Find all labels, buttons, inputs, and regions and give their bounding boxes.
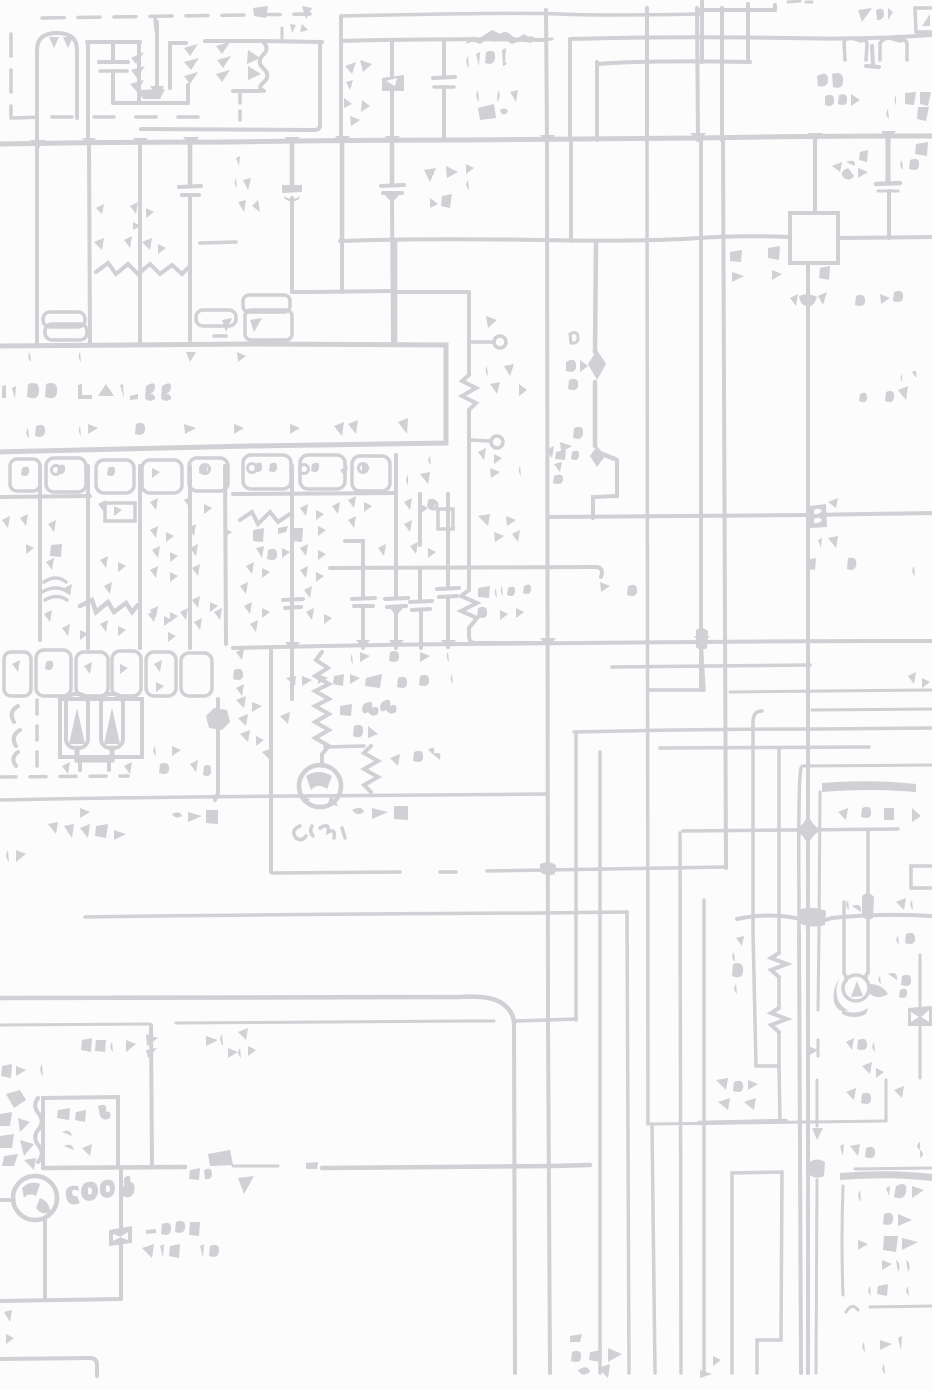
transformer T2 core triangle 2: [104, 708, 120, 744]
text garble near trimmer: [406, 472, 435, 508]
wire vertical x886: [885, 1080, 888, 1121]
inductor stack left: [43, 312, 87, 340]
wire vertical x753 lower: [753, 932, 756, 1066]
Q2 funnel top: [844, 972, 868, 982]
resistor R3 zigzag: [315, 652, 329, 766]
text garble bottom left marks: [6, 850, 26, 862]
resistor R2 squiggle: [240, 512, 290, 524]
coil L1 marks: [130, 52, 145, 92]
wire bus H12: [233, 641, 932, 648]
wire array drop E: [225, 466, 226, 644]
text scatter dense D: [44, 556, 178, 636]
capacitor C12 plates on drop F: [283, 599, 303, 608]
wire dashed stub: [155, 17, 156, 30]
capacitor C10 stem: [419, 610, 423, 648]
wire stub below L3: [238, 93, 242, 120]
capacitor C9 plates: [385, 598, 408, 607]
wire grid vertical F: [720, 8, 724, 140]
text garble arrow marks B: [352, 806, 430, 820]
wire dashed mid line: [52, 115, 218, 119]
text scatter dense J: [348, 496, 430, 532]
text scatter dense F: [62, 582, 130, 640]
wire drop H2: [418, 568, 422, 600]
wire vertical x808 lower: [806, 932, 810, 1373]
capacitor C6 lower stem: [290, 198, 294, 292]
node H12 junctions: [285, 636, 710, 651]
text scatter mid column: [300, 502, 342, 560]
transformer T2 outer box: [60, 699, 142, 757]
node big cross junction: [794, 814, 822, 846]
capacitor C1 polarity marks: [49, 37, 73, 48]
wire vertical drop end: [701, 640, 704, 690]
text garble small right: [859, 371, 917, 403]
text garble DV1: [1, 1064, 54, 1078]
wire branch to box: [813, 140, 817, 213]
text garble box B1 row2: [62, 1128, 98, 1156]
text garble mid column: [486, 362, 527, 396]
component small box T2: [105, 503, 135, 521]
wire vertical link 342: [340, 241, 344, 292]
node circles row1: [52, 464, 368, 475]
wire under row1 mid: [233, 493, 395, 494]
transformer T2 bottom U: [77, 748, 112, 760]
capacitor C2 lower stem: [111, 71, 115, 103]
wire H16: [574, 728, 932, 732]
text garble box B1 row1: [57, 1105, 111, 1122]
wire vertical long A: [546, 10, 547, 140]
text label 201: [858, 8, 893, 22]
text U1 pin numbers row bottom: [26, 423, 244, 438]
coil L2 top wire: [205, 39, 262, 43]
wire vertical D: [697, 8, 698, 140]
text scatter tile7 bottom: [478, 446, 568, 464]
wire vertical x515: [514, 1022, 515, 1373]
wire box left edge: [269, 648, 273, 872]
text garble 22C cluster: [832, 150, 868, 180]
component filled square: [50, 544, 62, 557]
wire H30 rail: [650, 1121, 886, 1124]
capacitor C7 lower stem: [392, 199, 393, 345]
diode pair block above IC: [243, 295, 292, 340]
wire drop 3: [138, 143, 142, 344]
coil L3 zigzag right edge: [260, 42, 268, 91]
text garble D15D 70: [253, 526, 303, 560]
decorative blob cluster left: [0, 1090, 36, 1170]
text garble 101: [466, 48, 506, 68]
capacitor C8 stem: [361, 606, 365, 648]
transformer T2 stubs: [80, 762, 109, 770]
wire corner riser: [141, 42, 320, 130]
text garble k2 row2: [732, 266, 842, 282]
box lens2 top: [840, 1171, 932, 1181]
text garble row small: [48, 806, 126, 840]
text block row 5: [854, 1284, 909, 1296]
transistor Q1 circle: [299, 765, 341, 807]
arrow head: [150, 86, 164, 97]
wire vertical feeder: [339, 16, 343, 140]
text scatter dense C: [150, 544, 220, 582]
wire nut stem: [215, 699, 218, 800]
transformer T2 capsule 2: [101, 694, 123, 748]
text garble pc cluster: [566, 360, 590, 390]
fuse F2 body: [109, 1226, 132, 1246]
node terminal circle 1: [494, 336, 506, 348]
text garble left column rows: [233, 648, 260, 696]
text garble 1 blob cluster: [590, 582, 637, 596]
wire H30 thick part: [699, 1121, 786, 1123]
wire second bus: [340, 236, 790, 241]
wire box top H: [325, 746, 364, 747]
transistor Q2 circle: [843, 975, 869, 1001]
wire H14 stub: [648, 688, 704, 692]
triangle mark: [238, 1176, 254, 1194]
text garble near bracket: [750, 898, 913, 916]
text garble right small: [908, 566, 930, 688]
node bulges on drop: [146, 1034, 158, 1058]
wire Q3 left lead: [0, 1198, 14, 1202]
transistor Q1 inner marks: [306, 772, 332, 790]
wire H13: [612, 665, 810, 667]
node terminal circle 2: [491, 436, 503, 448]
text garble 10716: [152, 744, 211, 776]
capacitor C1 capsule body: [37, 33, 77, 143]
wire main lower rail: [0, 997, 514, 1024]
resistor array marks: [21, 463, 382, 478]
capacitor C5 plates: [179, 186, 201, 195]
text label C006: [66, 1186, 80, 1205]
text U1 part label: [2, 383, 57, 399]
wire Q3 emitter stem: [43, 1221, 47, 1298]
wire H22 segment: [487, 867, 726, 871]
text garble pins left: [478, 316, 512, 330]
capacitor C11 plates: [437, 588, 459, 597]
text garble bottom right: [862, 1336, 902, 1374]
capacitor C9 wedge: [390, 608, 403, 616]
trimmer box small: [438, 509, 453, 529]
node bus junction 2: [183, 136, 400, 146]
component box K2: [790, 213, 838, 263]
wire vertical x920: [919, 955, 922, 1078]
wire vertical with arrow: [155, 22, 159, 86]
wire vertical B lower: [569, 140, 573, 241]
transistor Q3 circle: [13, 1176, 57, 1220]
wire loop right vertical: [137, 42, 141, 103]
text garble small pair: [238, 1028, 256, 1058]
node small circle: [429, 501, 437, 509]
wire thin top right: [855, 1168, 932, 1169]
text garble hat dash: [538, 39, 552, 40]
text garble row B: [286, 674, 453, 688]
wire to terminal 2: [470, 440, 491, 441]
wire stub top: [281, 28, 284, 38]
wire corner drop: [151, 1025, 152, 1167]
wire hook end: [597, 567, 602, 577]
wire vertical mid drop: [574, 732, 578, 1020]
fuse F1 right cup: [880, 38, 907, 60]
small blob: [306, 1162, 318, 1169]
text garble arrow marks: [172, 810, 218, 824]
text garble S marks left: [466, 164, 474, 198]
capacitor C6 stem: [290, 143, 295, 184]
text scatter dense G: [148, 608, 222, 642]
wire to terminal 1: [470, 340, 494, 344]
wire horizontal H10: [548, 513, 932, 517]
wire H20 rail: [0, 794, 548, 800]
dash marks top edge: [788, 1, 812, 2]
resistor R4 zigzag: [364, 746, 378, 792]
box top lens thick: [822, 781, 916, 792]
node diamond junction: [595, 241, 615, 459]
component pancake arcs: [42, 578, 68, 600]
wire Q2 stem left: [842, 902, 846, 973]
text garble C151: [294, 826, 345, 840]
wire loop bottom: [113, 101, 188, 105]
wire mid horizontal: [330, 567, 597, 568]
connector J1 box: [915, 8, 932, 32]
transistor Q2 outer arcs: [834, 978, 848, 1011]
wire vertical tall drop: [598, 752, 602, 1373]
wire vertical C: [645, 8, 649, 140]
text garble 701 10 16: [798, 536, 856, 570]
wire array drop A: [38, 466, 42, 640]
arrow head on dashed edge: [812, 1128, 823, 1140]
node blob junction x701: [696, 628, 708, 650]
node blob: [862, 893, 874, 919]
text scatter right mid: [378, 542, 436, 558]
text garble A10 labels: [838, 807, 921, 822]
capacitor C4 lower stem: [887, 191, 891, 238]
resistor array row 1: [10, 455, 390, 493]
wire dashed vertical: [35, 700, 39, 772]
fuse F1 element: [866, 46, 879, 67]
wire long vertical main: [806, 263, 810, 932]
text garble rotated column: [553, 450, 572, 484]
capacitor C2 plates: [99, 60, 128, 64]
connector hex nut: [206, 708, 230, 730]
coil L2 marks: [216, 42, 231, 82]
wire elbow to left vertical: [395, 290, 469, 294]
wire vertical right drop: [680, 833, 681, 1373]
wire vertical x627: [627, 912, 629, 1373]
squiggle band atop drops: [96, 263, 190, 274]
wire vertical x655: [652, 1124, 655, 1373]
wire H27 elbow: [756, 1064, 779, 1068]
capacitor C5 stem: [188, 143, 193, 185]
wire box bottom rail: [43, 1167, 185, 1168]
wire second rail: [341, 39, 545, 41]
wire stub segment: [200, 242, 236, 243]
wire under row1 left: [0, 496, 90, 497]
wire array drop F long: [290, 466, 294, 699]
text garble right of node: [855, 291, 903, 306]
text garble left col tile11: [478, 466, 526, 542]
wire stub mid: [292, 291, 395, 292]
text garble right of Q2: [878, 932, 930, 998]
wire vertical B: [568, 40, 572, 140]
wire grid horizontal top: [699, 8, 775, 12]
text block row 2: [862, 1213, 912, 1226]
text garble cluster bottom mid: [570, 1334, 622, 1378]
wire array drop C: [138, 466, 142, 648]
text garble left col lower: [477, 585, 531, 620]
wire top bar node: [87, 40, 140, 44]
text garble row A: [322, 651, 449, 666]
text garble hat row: [466, 30, 534, 44]
transistor Q3 inner marks: [22, 1183, 50, 1214]
text block row 3: [858, 1236, 930, 1252]
text garble right edge: [886, 92, 931, 121]
text garble mid cluster: [344, 60, 374, 126]
wire left drop with resistor R1: [467, 292, 471, 448]
wire array drop B: [86, 466, 90, 648]
capacitor C11 stem: [446, 597, 450, 647]
wire dashed outline top-left: [11, 14, 310, 118]
wire vertical hook: [753, 711, 762, 932]
box left edge: [819, 792, 820, 932]
inductor stack right: [196, 310, 236, 326]
capacitor C4 plates: [876, 183, 900, 184]
wire right vertical drop 2: [723, 140, 726, 868]
wire dashed horizontal: [0, 776, 128, 777]
transformer T1 winding marks: [184, 44, 199, 84]
op-amp U1 IC box LA7266: [0, 344, 446, 452]
wire L2 bottom: [233, 89, 260, 93]
text scatter dense I: [300, 466, 366, 624]
filled bar under coil: [138, 89, 165, 99]
capacitor C4 stem: [886, 139, 891, 181]
wire vertical branch: [390, 40, 394, 140]
coil L2 right marks: [247, 50, 261, 80]
capacitor C5 lower stem: [188, 195, 192, 340]
text garble LTD S row: [840, 1142, 923, 1158]
text garble small row2: [262, 24, 308, 33]
text scatter dense E: [2, 514, 220, 630]
text garble parens dots: [476, 90, 520, 120]
wire lower rail thin: [0, 1021, 494, 1025]
wire text block left edge: [842, 1186, 843, 1295]
wire H24 rail: [85, 912, 627, 917]
capacitor C7 wedge: [385, 195, 399, 203]
capacitor C9 stem: [394, 612, 398, 648]
wire H21: [683, 829, 898, 831]
text garble right edge cluster: [900, 142, 932, 170]
wire top bar extension: [262, 41, 322, 42]
wire H17: [660, 747, 869, 748]
transformer T1 left winding frame: [170, 43, 186, 88]
transformer T1 right vertical: [186, 85, 190, 103]
wire vertical with resistors R5 R6: [777, 748, 781, 1068]
wire H14b: [730, 690, 932, 692]
component link box: [810, 504, 827, 528]
wire vertical taper: [799, 768, 801, 932]
text block row 4: [856, 1260, 910, 1272]
wire elbow riser: [393, 241, 398, 345]
wire H15: [812, 709, 932, 710]
capacitor C7 stem: [390, 143, 395, 184]
text garble below bus tiny: [95, 202, 172, 230]
wire grid stub 1: [746, 4, 750, 10]
wire fuse drop: [119, 1168, 123, 1298]
wire nested horizontal: [597, 61, 750, 64]
wire drop G: [394, 455, 398, 596]
text garble DO)A: [189, 1168, 236, 1180]
resistor array row 2: [4, 650, 212, 696]
wire box bottom dash: [440, 870, 456, 874]
wire array drop D: [188, 466, 192, 648]
text garble small o: [570, 333, 578, 343]
resistor R6 zigzag: [771, 1008, 787, 1032]
capacitor C7 plates: [381, 185, 404, 193]
text garble k2 row: [730, 246, 780, 262]
wire grid vertical G: [746, 8, 750, 62]
text scatter dense B: [46, 520, 232, 544]
text garble cluster right low: [808, 1038, 904, 1104]
text label -00D: [146, 1221, 200, 1236]
resistor row 2 marks: [12, 660, 164, 692]
wire rail thin segment: [233, 1165, 278, 1168]
wire vertical x779 tail: [779, 1066, 780, 1122]
arc mark: [846, 1306, 858, 1312]
wire drop 4: [340, 143, 345, 241]
wire nested corner: [595, 62, 599, 140]
text garble cluster left低: [716, 1078, 758, 1110]
text garble right of C3: [417, 166, 462, 208]
wire stub link: [548, 1019, 576, 1020]
resistor R7 zigzag left: [469, 448, 541, 643]
wire box bottom: [272, 872, 400, 873]
text garble messy top cluster: [236, 696, 304, 760]
wire drop H: [418, 494, 422, 545]
wire vertical long A lower: [547, 140, 550, 1373]
node H22 blob: [540, 862, 556, 875]
wire vertical from bar: [86, 42, 90, 143]
text garble right marks: [206, 1034, 238, 1058]
connector bracket open left: [911, 866, 932, 888]
text garble bottom small: [700, 1356, 721, 1378]
wire top rail: [341, 13, 699, 16]
wire drop I: [446, 494, 450, 586]
node bus junction 1: [30, 138, 148, 149]
wire corner link: [514, 1020, 548, 1021]
resistor R1 zigzag: [462, 375, 476, 410]
text block row 1: [858, 1184, 932, 1202]
wire rail thick segment: [322, 1165, 590, 1168]
text scatter dense A: [98, 496, 212, 516]
wire drop 1: [35, 143, 39, 344]
node winged junction: [799, 294, 817, 306]
connector bowtie: [908, 1006, 932, 1026]
relay K1 body: [382, 75, 404, 91]
text label 410716: [142, 1244, 219, 1258]
wire dashed box edge: [816, 932, 819, 1373]
wire drop 2: [89, 143, 90, 344]
capacitor C3 lower stem: [442, 87, 446, 140]
wire H23: [737, 915, 932, 921]
transformer T2 side marks: [50, 706, 152, 774]
text garble column left: [732, 936, 744, 994]
dark blob bottom: [208, 1150, 233, 1166]
wire grid vertical E: [700, 0, 704, 62]
text garble top-mid-left: [253, 6, 312, 20]
transformer T2 capsule 1: [66, 694, 88, 748]
text U1 pin numbers row top: [28, 352, 389, 363]
capacitor C8 plates: [352, 598, 375, 606]
text garble below bus left: [235, 156, 264, 212]
wire jog segment: [593, 460, 617, 518]
wire right rail: [570, 35, 932, 39]
component squiggle band: [80, 600, 138, 612]
wire corner step: [345, 541, 363, 596]
